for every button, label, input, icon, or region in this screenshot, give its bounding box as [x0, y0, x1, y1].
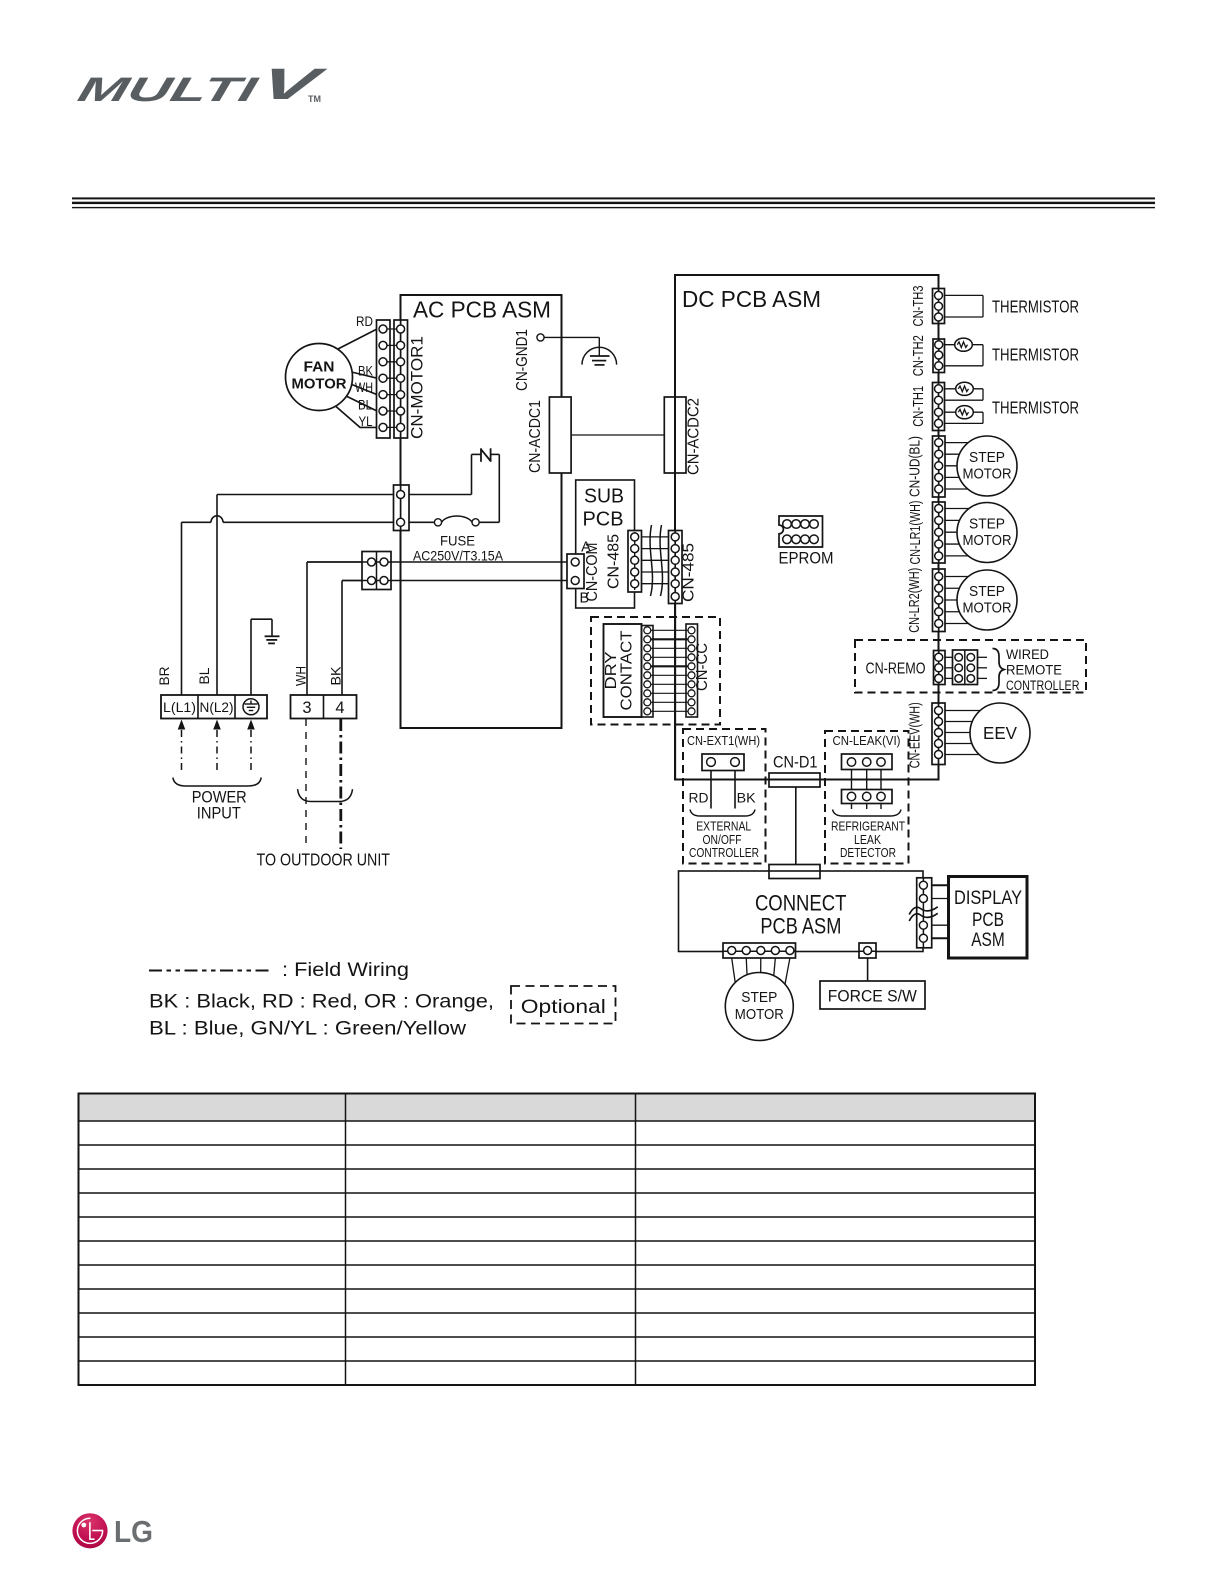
svg-text:CN-LEAK(VI): CN-LEAK(VI)	[833, 734, 901, 748]
connector 2x2 field terminal	[362, 552, 391, 590]
FORCE S/W box	[820, 981, 925, 1009]
svg-text:MOTOR: MOTOR	[963, 533, 1012, 549]
MULTI V logo	[74, 61, 330, 109]
svg-text:BL : Blue, GN/YL : Green/Yello: BL : Blue, GN/YL : Green/Yellow	[149, 1018, 467, 1040]
wires leak detector	[851, 770, 853, 790]
svg-text:REFRIGERANT: REFRIGERANT	[831, 820, 905, 834]
svg-text:CN-ACDC2: CN-ACDC2	[685, 398, 702, 475]
svg-text:THERMISTOR: THERMISTOR	[992, 345, 1079, 365]
svg-text:CONTACT: CONTACT	[619, 630, 636, 711]
svg-text:CONTROLLER: CONTROLLER	[1006, 678, 1080, 693]
svg-text:PCB ASM: PCB ASM	[760, 914, 841, 939]
wired remote dashed box	[855, 640, 1086, 693]
svg-text:DC PCB ASM: DC PCB ASM	[682, 286, 821, 312]
brace refrigerant leak detector	[833, 810, 902, 817]
svg-text:MOTOR: MOTOR	[963, 601, 1012, 617]
svg-text:BK: BK	[329, 667, 344, 686]
wire CN-D1 to connect pcb	[795, 787, 797, 865]
DC PCB ASM box	[675, 275, 939, 780]
svg-text:SUB: SUB	[584, 486, 624, 508]
wire to force switch	[867, 958, 869, 981]
brace power input	[173, 778, 261, 787]
svg-text:YL: YL	[359, 414, 373, 429]
terminal block L(L1) N(L2) ground	[161, 695, 267, 719]
cable break waves	[650, 525, 652, 596]
field wiring legend line	[149, 970, 273, 972]
svg-text:EXTERNAL: EXTERNAL	[696, 820, 751, 834]
svg-text:WH: WH	[355, 380, 373, 395]
connector force switch pin	[859, 943, 876, 958]
svg-text:CN-485: CN-485	[606, 534, 623, 589]
EPROM ic symbol	[779, 516, 823, 547]
svg-text:CN-EXT1(WH): CN-EXT1(WH)	[687, 734, 760, 748]
wire CN-ACDC1 to CN-ACDC2	[571, 434, 664, 436]
connector CN-LEAK	[842, 754, 893, 770]
svg-text:Optional: Optional	[521, 996, 606, 1018]
connector CN-ACDC2	[664, 397, 686, 473]
svg-text:THERMISTOR: THERMISTOR	[992, 398, 1079, 418]
thermal switch N symbol	[471, 454, 473, 494]
connector below CN-D1 on connect pcb	[769, 865, 820, 879]
SUB PCB box	[576, 480, 635, 608]
svg-text:MULTI: MULTI	[74, 71, 263, 108]
svg-text:AC PCB ASM: AC PCB ASM	[413, 297, 551, 323]
CONNECT PCB ASM box	[679, 871, 924, 952]
connector CN-EEV(WH)	[932, 703, 983, 765]
svg-text:CN-TH3: CN-TH3	[911, 286, 927, 327]
svg-text:CN-D1: CN-D1	[773, 753, 818, 772]
external controller dashed box	[683, 729, 766, 864]
wire crossing hop	[211, 516, 223, 523]
connector CN-COM with pins A B	[567, 554, 584, 589]
svg-text:MOTOR: MOTOR	[963, 467, 1012, 483]
connector step motor 5-pin	[723, 943, 796, 995]
connector CN-LR2(WH)	[933, 569, 984, 632]
table grid	[79, 1094, 1036, 1386]
wire L-line from L(L1) with hop	[182, 521, 212, 523]
brace external controller	[690, 810, 755, 817]
svg-text:DETECTOR: DETECTOR	[840, 846, 896, 860]
svg-text:: Field Wiring: : Field Wiring	[282, 959, 409, 981]
svg-text:CONTROLLER: CONTROLLER	[689, 846, 759, 860]
dry contact dashed box	[591, 617, 720, 725]
svg-text:CN-LR1(WH): CN-LR1(WH)	[908, 501, 924, 565]
svg-text:CN-485: CN-485	[680, 543, 697, 602]
connector CN-REMO	[934, 651, 954, 685]
svg-text:LEAK: LEAK	[854, 833, 882, 847]
svg-text:FUSE: FUSE	[440, 533, 475, 549]
dry contact link wires	[674, 604, 676, 780]
connector CN-TH2 and thermistor element	[933, 338, 983, 372]
connector CN-EXT1	[702, 754, 744, 771]
svg-text:CN-MOTOR1: CN-MOTOR1	[408, 336, 427, 439]
svg-text:ON/OFF: ON/OFF	[703, 833, 742, 847]
cable break waves display	[909, 907, 938, 915]
step motor at CN-LR1(WH)	[957, 503, 1017, 563]
svg-text:LG: LG	[114, 1514, 153, 1549]
EEV motor circle	[970, 703, 1030, 763]
svg-text:ASM: ASM	[971, 930, 1005, 951]
svg-text:CN-TH2: CN-TH2	[911, 335, 927, 376]
connector remote 2x3 plug	[953, 650, 988, 685]
terminal CN-GND1	[544, 336, 599, 338]
DISPLAY PCB ASM box	[949, 877, 1028, 959]
step motor bottom	[725, 973, 793, 1041]
svg-text:CN-LR2(WH): CN-LR2(WH)	[907, 568, 923, 633]
svg-text:STEP: STEP	[969, 584, 1005, 600]
earth ground symbol	[265, 635, 280, 637]
svg-text:DISPLAY: DISPLAY	[954, 888, 1022, 909]
svg-text:4: 4	[335, 699, 344, 717]
svg-text:BK: BK	[358, 364, 373, 379]
fan motor circle FAN MOTOR	[286, 344, 353, 411]
connector CN-485 dc side	[669, 531, 683, 604]
fuse FUSE AC250V/T3.15A	[442, 516, 473, 522]
svg-text:CN-ACDC1: CN-ACDC1	[527, 400, 544, 473]
AC PCB ASM box	[401, 295, 562, 728]
svg-text:CN-UD(BL): CN-UD(BL)	[908, 436, 924, 497]
step motor at CN-UD(BL)	[957, 436, 1017, 496]
svg-text:BK: BK	[737, 790, 757, 806]
svg-text:RD: RD	[689, 790, 709, 806]
svg-text:WIRED: WIRED	[1006, 647, 1049, 662]
svg-text:INPUT: INPUT	[197, 804, 241, 822]
step motor at CN-LR2(WH)	[957, 570, 1017, 630]
svg-text:WH: WH	[294, 666, 309, 686]
connector CN-TH1 and two thermistor elements	[933, 382, 984, 430]
svg-text:CN-CC: CN-CC	[694, 643, 711, 691]
ground terminal symbol	[243, 699, 259, 715]
svg-text:FAN: FAN	[304, 360, 335, 376]
wires RD BK to external controller	[710, 771, 712, 809]
fan motor wires RD BK WH BL YL	[334, 329, 377, 351]
connector CN-CC column	[686, 624, 698, 717]
svg-text:STEP: STEP	[969, 517, 1005, 533]
svg-text:TO OUTDOOR UNIT: TO OUTDOOR UNIT	[257, 850, 391, 870]
connector leak detector plug	[842, 790, 893, 804]
table header row	[79, 1094, 1034, 1121]
svg-text:THERMISTOR: THERMISTOR	[992, 297, 1079, 317]
svg-text:DRY: DRY	[603, 652, 620, 690]
svg-text:CN-GND1: CN-GND1	[514, 329, 531, 391]
svg-text:BL: BL	[358, 398, 372, 413]
wire BK row to CN-COM B	[342, 580, 567, 582]
connector dry-contact column	[642, 626, 654, 718]
svg-text:BK : Black, RD : Red, OR : Ora: BK : Black, RD : Red, OR : Orange,	[149, 991, 494, 1013]
brace outdoor unit	[298, 789, 353, 801]
field wiring arrows to power terminals	[178, 720, 186, 730]
svg-text:STEP: STEP	[741, 990, 777, 1006]
svg-text:CONNECT: CONNECT	[755, 891, 847, 916]
field wires to outdoor unit	[305, 719, 307, 849]
Optional dashed box	[511, 986, 616, 1024]
wire N-line from N(L2)	[217, 494, 472, 496]
protective earth ground symbol	[582, 347, 617, 364]
svg-text:CN-EEV(WH): CN-EEV(WH)	[908, 702, 924, 768]
svg-text:EEV: EEV	[983, 723, 1017, 743]
svg-text:EPROM: EPROM	[779, 549, 834, 568]
wire WH row to CN-COM A	[307, 561, 567, 563]
terminal block 3 4	[291, 695, 357, 719]
triple horizontal rule	[72, 197, 1155, 199]
svg-text:AC250V/T3.15A: AC250V/T3.15A	[413, 548, 504, 564]
connector CN-UD(BL)	[933, 436, 984, 497]
svg-text:STEP: STEP	[969, 450, 1005, 466]
connector CN-MOTOR1	[377, 320, 391, 438]
svg-text:PCB: PCB	[583, 509, 624, 531]
brace for wired remote controller	[993, 649, 1005, 691]
connector display 4-pin	[917, 878, 949, 948]
svg-text:3: 3	[302, 699, 311, 717]
svg-text:MOTOR: MOTOR	[292, 377, 348, 393]
DRY CONTACT box	[604, 624, 642, 717]
connector CN-485 sub side	[642, 536, 669, 538]
connector CN-ACDC1	[549, 397, 571, 473]
svg-text:CN-REMO: CN-REMO	[866, 661, 926, 678]
svg-text:PCB: PCB	[972, 910, 1004, 931]
svg-text:BR: BR	[157, 666, 172, 685]
svg-text:MOTOR: MOTOR	[735, 1007, 784, 1023]
refrigerant leak dashed box	[825, 731, 909, 864]
connector on AC edge (2-pin)	[394, 485, 410, 531]
ground wire from terminal	[250, 619, 252, 695]
svg-text:L(L1): L(L1)	[163, 699, 196, 715]
svg-text:CN-COM: CN-COM	[584, 543, 601, 602]
svg-text:N(L2): N(L2)	[200, 699, 234, 715]
svg-text:CN-TH1: CN-TH1	[911, 386, 927, 427]
svg-text:TM: TM	[308, 94, 321, 104]
connector CN-TH3	[933, 289, 984, 324]
svg-text:REMOTE: REMOTE	[1006, 663, 1062, 678]
svg-text:BL: BL	[197, 667, 212, 685]
svg-text:FORCE S/W: FORCE S/W	[828, 988, 917, 1006]
svg-text:RD: RD	[356, 314, 373, 329]
connector CN-LR1(WH)	[933, 502, 984, 563]
